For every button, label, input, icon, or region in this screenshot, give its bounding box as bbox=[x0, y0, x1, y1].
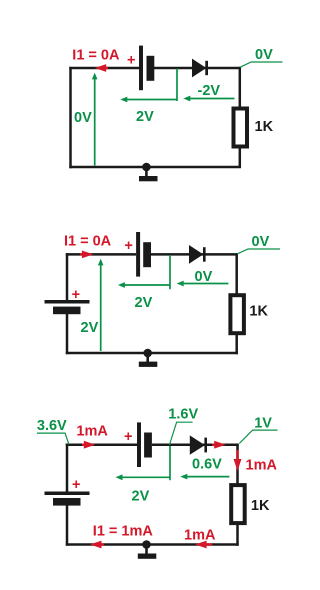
wire: circuit 3 left top segment bbox=[66, 444, 69, 492]
label: 0V (diode) bbox=[195, 269, 213, 285]
label: 1mA (bottom right) bbox=[184, 528, 216, 544]
wire: circuit 1 bottom bbox=[69, 166, 241, 169]
svg-text:I1 = 0A: I1 = 0A bbox=[64, 234, 112, 250]
battery V2 (2V, top) plates bbox=[136, 232, 151, 277]
label: 0.6V (diode) bbox=[192, 457, 222, 473]
ground symbol circuit 3 bbox=[138, 540, 157, 559]
svg-text:0V: 0V bbox=[74, 110, 92, 126]
svg-text:+: + bbox=[72, 477, 80, 493]
svg-text:1K: 1K bbox=[249, 304, 268, 320]
svg-text:2V: 2V bbox=[135, 295, 153, 311]
current arrow 1mA right side (pointing down) bbox=[234, 450, 242, 471]
wire: circuit 2 bottom bbox=[66, 352, 238, 355]
current arrow 1mA top left (pointing right) bbox=[82, 441, 95, 449]
battery V5 plus polarity mark bbox=[72, 477, 80, 493]
node reference line circuit 3 bbox=[169, 446, 171, 480]
wire: circuit 3 top right segment bbox=[152, 443, 239, 446]
voltage arrow -2V (diode, pointing left) bbox=[183, 96, 234, 102]
probe/label 1.6V at battery-diode node bbox=[168, 407, 198, 446]
label: I1 = 0A circuit 2 bbox=[64, 234, 112, 250]
current arrow 1mA after diode (pointing right) bbox=[212, 441, 226, 449]
svg-text:+: + bbox=[72, 287, 80, 303]
probe/label 1V at output node bbox=[239, 415, 277, 443]
svg-text:1mA: 1mA bbox=[246, 458, 278, 474]
svg-text:1K: 1K bbox=[251, 498, 270, 514]
voltage arrow 0V (left, pointing up) bbox=[92, 73, 98, 166]
voltage arrow 2V (top battery, pointing left) bbox=[116, 474, 171, 480]
wire: circuit 1 top right segment bbox=[154, 67, 241, 70]
svg-text:2V: 2V bbox=[136, 109, 154, 125]
label: 2V bbox=[136, 109, 154, 125]
wire: circuit 3 top left segment bbox=[66, 443, 137, 446]
voltage arrow 0V (diode, pointing left) bbox=[177, 281, 229, 287]
voltage arrow 2V (left battery, pointing up) bbox=[98, 259, 104, 351]
battery V4 plus polarity mark bbox=[124, 429, 132, 445]
battery V4 (2V, top) plates bbox=[137, 422, 152, 467]
node reference line circuit 2 bbox=[169, 255, 171, 289]
battery V1 plus polarity mark bbox=[127, 52, 135, 68]
label: R2 value 1K bbox=[249, 304, 268, 320]
label: 0V (left arrow) bbox=[74, 110, 92, 126]
ground symbol circuit 2 bbox=[139, 349, 158, 367]
svg-text:I1 = 0A: I1 = 0A bbox=[72, 48, 120, 64]
svg-text:1.6V: 1.6V bbox=[168, 407, 198, 423]
svg-text:1V: 1V bbox=[254, 415, 272, 431]
wire: circuit 1 left side bbox=[69, 67, 72, 168]
label: I1 = 1mA bbox=[93, 523, 154, 539]
resistor R3 1K bbox=[231, 485, 245, 523]
current arrow 1mA bottom right (pointing left) bbox=[195, 541, 212, 549]
wire: circuit 2 right side bbox=[235, 253, 238, 354]
svg-text:+: + bbox=[124, 238, 132, 254]
svg-text:3.6V: 3.6V bbox=[37, 418, 67, 434]
svg-text:0.6V: 0.6V bbox=[192, 457, 222, 473]
label: 2V (top battery) circuit 3 bbox=[132, 489, 150, 505]
svg-text:0V: 0V bbox=[255, 47, 273, 63]
battery V3 plus polarity mark bbox=[72, 287, 80, 303]
probe/label 0V at output node circuit 2 bbox=[237, 234, 280, 254]
probe/label 3.6V at input node bbox=[37, 418, 69, 445]
svg-text:-2V: -2V bbox=[198, 83, 221, 99]
svg-text:1mA: 1mA bbox=[76, 424, 108, 440]
svg-text:1mA: 1mA bbox=[184, 528, 216, 544]
label: I1 = 0A bbox=[72, 48, 120, 64]
battery V5 (left, horizontal plates) bbox=[45, 492, 90, 506]
current arrow I1 bottom left (pointing left) bbox=[90, 541, 104, 549]
svg-text:2V: 2V bbox=[81, 320, 99, 336]
label: 2V (left battery) bbox=[81, 320, 99, 336]
svg-text:+: + bbox=[124, 429, 132, 445]
battery V2 plus polarity mark bbox=[124, 238, 132, 254]
svg-text:I1 = 1mA: I1 = 1mA bbox=[93, 523, 154, 539]
diode D2 bbox=[189, 245, 206, 264]
wire: circuit 2 left bottom segment bbox=[66, 307, 69, 354]
wire: circuit 3 left bottom segment bbox=[66, 498, 69, 546]
label: 1mA (top left) bbox=[76, 424, 108, 440]
wire: circuit 2 top left segment bbox=[66, 253, 136, 256]
current arrow I1 (pointing right) circuit 2 bbox=[80, 251, 93, 259]
svg-text:0V: 0V bbox=[195, 269, 213, 285]
wire: circuit 2 left top segment bbox=[66, 253, 69, 300]
battery V1 (2V) plates bbox=[139, 46, 154, 91]
probe/label 0V at output node circuit 1 bbox=[240, 47, 282, 67]
wire: circuit 1 top left segment bbox=[69, 67, 139, 70]
label: -2V bbox=[198, 83, 221, 99]
wire: circuit 1 right side bbox=[239, 67, 242, 168]
ground symbol circuit 1 bbox=[139, 163, 158, 182]
battery V3 (left, horizontal plates) bbox=[45, 300, 90, 314]
label: R3 value 1K bbox=[251, 498, 270, 514]
voltage arrow 0.6V (diode, pointing left) bbox=[180, 474, 229, 480]
resistor R1 1K bbox=[234, 109, 248, 147]
label: R1 value 1K bbox=[255, 119, 274, 135]
svg-text:1K: 1K bbox=[255, 119, 274, 135]
current arrow I1 (pointing left) bbox=[95, 64, 108, 72]
wire: circuit 3 bottom bbox=[66, 543, 239, 546]
svg-text:+: + bbox=[127, 52, 135, 68]
label: 1mA (right side) bbox=[246, 458, 278, 474]
resistor R2 1K bbox=[230, 295, 244, 333]
svg-text:0V: 0V bbox=[252, 234, 270, 250]
node reference line (battery-diode node) circuit 1 bbox=[176, 69, 178, 102]
wire: circuit 2 top right segment bbox=[151, 253, 238, 256]
svg-text:2V: 2V bbox=[132, 489, 150, 505]
diode D3 (conducting) bbox=[190, 435, 207, 454]
label: 2V (top battery) bbox=[135, 295, 153, 311]
voltage arrow 2V (top battery, pointing left) bbox=[118, 282, 170, 288]
wire: circuit 3 right side bbox=[236, 444, 239, 546]
diode D1 bbox=[192, 59, 208, 78]
voltage arrow 2V (battery, pointing left) bbox=[120, 97, 176, 103]
